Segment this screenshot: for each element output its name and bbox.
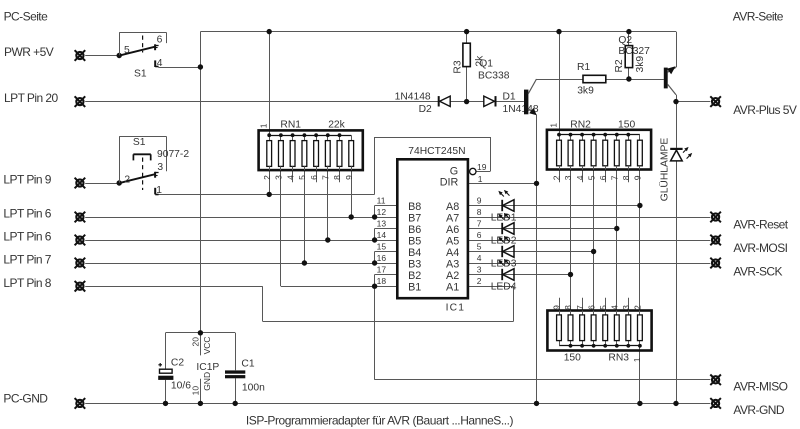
wire A2 row IC pin 3 through LED4 to RN2 pin 3 column [468,274,571,276]
svg-text:3k9: 3k9 [577,85,594,96]
svg-text:5: 5 [297,175,307,180]
svg-text:9: 9 [344,175,354,180]
svg-text:22k: 22k [328,119,345,130]
svg-text:150: 150 [564,353,581,364]
capacitor C2 10/6 electrolytic [158,363,173,380]
wire R3 top lead [466,32,468,44]
wire A7 row IC pin 8 to AVR-Reset [468,217,711,219]
svg-text:B4: B4 [408,247,421,259]
LED LED4 [498,259,514,280]
svg-text:20: 20 [190,337,200,347]
wire LPT Pin 9 to switch S1 pin 2 [85,183,119,185]
junction VCC node [198,330,203,335]
junction IC1P GND [198,401,203,406]
svg-text:C2: C2 [171,357,184,368]
wire RN1 unused pin stubs [292,170,294,182]
junction LED2 row RN2 pin 7 [614,226,619,231]
switch S1 upper (pins 5-6-4) [119,32,166,67]
wire D1 to Q1 base [496,101,524,103]
svg-text:C1: C1 [241,358,254,369]
svg-text:1: 1 [258,123,268,128]
terminal AVR-Reset [710,212,721,223]
resistor R1 3k9 [583,75,606,82]
terminal LPT Pin 8 [75,281,86,292]
junction PWR at S1 pin 5 [117,53,122,58]
wire LPT Pin 6 row to IC pin 12 [85,217,397,219]
svg-text:16: 16 [377,253,387,263]
svg-text:LPT Pin 6: LPT Pin 6 [3,207,51,221]
wire A3 row IC pin 4 to AVR-SCK [468,263,711,265]
junction RN1 pin 7 on pin-14 row [325,237,330,242]
wire Q2 emitter to +5V rail [676,32,678,68]
svg-text:5: 5 [586,175,596,180]
wire switch S1 pin 4 to +5V node [158,67,200,69]
svg-text:RN3: RN3 [608,353,629,364]
wire LPT Pin 8 jog down and under IC to A1 [262,286,264,321]
svg-text:74HCT245N: 74HCT245N [408,146,465,157]
wire IC1P VCC pin stub [200,333,202,356]
svg-text:4: 4 [157,58,163,69]
svg-text:A6: A6 [446,224,459,236]
svg-text:A4: A4 [446,247,459,259]
diode D2 1N4148 [439,96,451,106]
svg-text:9: 9 [633,175,643,180]
svg-text:IC1P: IC1P [196,362,219,373]
junction pins 17-18 MISO [372,284,377,289]
svg-text:1: 1 [478,174,483,184]
wire GND row [85,403,710,405]
wire RN2 unused pin stubs [559,169,561,182]
junction RN1 pin 2 on gate net [267,192,272,197]
svg-text:LED3: LED3 [491,258,517,269]
wire LPT Pin 7 row to IC pin 16 [85,263,397,265]
svg-text:BC338: BC338 [478,70,510,81]
terminal AVR-Plus 5V [710,96,721,107]
svg-text:4: 4 [610,305,620,310]
wire RN1 pin 2 down to gate net [269,170,271,194]
svg-text:B6: B6 [408,224,421,236]
diode D1 1N4148 [484,96,496,106]
svg-text:1: 1 [632,357,642,362]
terminal PWR +5V [75,50,86,61]
svg-text:13: 13 [377,219,387,229]
resistor network RN3 150 [547,311,651,351]
terminal LPT Pin 9 [75,178,86,189]
svg-text:5: 5 [477,242,482,252]
wire C1 bottom lead [235,378,237,403]
svg-text:AVR-SCK: AVR-SCK [733,264,782,278]
svg-text:LPT Pin 7: LPT Pin 7 [3,253,51,267]
wire IC pin 17 stub [375,274,398,276]
svg-text:Q2: Q2 [618,35,632,46]
wire C2 bottom lead [165,380,167,404]
svg-text:3: 3 [477,265,482,275]
junction LED4 row RN2 pin 3 [568,272,573,277]
resistor R2 3k9 [625,46,632,68]
junction R1-R2-Q2 base [626,76,631,81]
svg-text:6: 6 [598,175,608,180]
svg-text:AVR-Reset: AVR-Reset [733,218,788,232]
transistor Q2 BC327 PNP [664,66,676,94]
switch S1 lower (pins 2-3-1) 9077-2 [119,136,166,194]
junction D2-D1-R3 node [464,99,469,104]
svg-text:A1: A1 [446,282,459,294]
svg-text:6: 6 [309,175,319,180]
svg-text:LPT Pin 20: LPT Pin 20 [4,91,59,105]
svg-text:B1: B1 [408,282,421,294]
wire RN1 pin 9 down to pin-12 row [351,170,353,217]
svg-text:7: 7 [321,175,331,180]
svg-text:3: 3 [274,175,284,180]
wire RN1 pin 5 down to pin-16 row [304,170,306,263]
svg-text:VCC: VCC [202,336,212,354]
svg-text:AVR-Seite: AVR-Seite [733,10,784,24]
svg-text:17: 17 [377,265,387,275]
wire pair join pins 13-14 [374,229,376,241]
lamp GLUEHLAMPE LED symbol [670,147,692,161]
svg-text:A2: A2 [446,270,459,282]
svg-text:AVR-MISO: AVR-MISO [733,380,787,394]
wire pair join pins 17-18 and down to MISO row [374,275,376,380]
wire RN2 pin 5 column down to RN3 [593,166,595,311]
capacitor C1 100n [225,370,245,378]
svg-text:GND: GND [202,372,212,391]
junction LPT Pin 9 at S1 pin 2 [117,180,122,185]
svg-text:AVR-GND: AVR-GND [733,403,784,417]
wire Q2 collector to AVR-Plus 5V node [676,95,678,102]
junction S1 pin 4 to +5V rail [198,64,203,69]
wire C1 top lead [235,333,237,371]
LED LED2 [498,213,514,234]
wire RN1 pin 3 to IC pin 18 [280,170,282,286]
junction RN1 pin 5 on pin-16 row [302,260,307,265]
wire left vertical +5V/VCC rail [200,32,202,333]
LED LED3 [498,236,514,257]
svg-text:LED2: LED2 [491,235,517,246]
svg-text:PWR +5V: PWR +5V [4,45,54,59]
svg-text:LPT Pin 6: LPT Pin 6 [3,230,51,244]
junction C1 GND [233,401,238,406]
svg-text:LPT Pin 8: LPT Pin 8 [3,276,51,290]
junction pins 15-16 [372,260,377,265]
svg-text:19: 19 [477,162,487,172]
wire LPT Pin 20 row to D2 [85,101,438,103]
wire A4 row IC pin 5 through LED3 to RN2 pin 5 column [468,251,594,253]
svg-text:150: 150 [618,119,635,130]
svg-text:D2: D2 [419,104,432,115]
svg-text:AVR-Plus 5V: AVR-Plus 5V [733,103,797,117]
svg-text:2: 2 [633,305,643,310]
svg-text:A5: A5 [446,235,459,247]
wire DIR pin 1 to emitter rail [468,183,537,185]
transistor Q1 BC338 NPN [524,79,537,115]
svg-text:2: 2 [477,276,482,286]
wire pair join pins 15-16 [374,252,376,264]
svg-text:4: 4 [285,175,295,180]
svg-text:6: 6 [157,34,163,45]
svg-text:2: 2 [124,174,130,185]
terminal AVR-MOSI [710,235,721,246]
wire lamp column top [676,102,678,148]
wire RN2 pin 9 column down to RN3 [639,166,641,311]
junction RN1 pin 9 on pin-12 row [349,214,354,219]
wire A5 row IC pin 6 to AVR-MOSI [468,240,711,242]
svg-text:DIR: DIR [440,177,459,189]
svg-text:A8: A8 [446,201,459,213]
junction RN3 pin 1 GND [637,401,642,406]
junction C2 GND [163,401,168,406]
wire IC pin 13 stub [375,228,398,230]
svg-text:1N4148: 1N4148 [395,91,431,102]
svg-text:BC327: BC327 [618,46,650,57]
terminal LPT Pin 7 [75,258,86,269]
wire pair join pins 11-12 [374,206,376,218]
svg-text:D1: D1 [503,91,516,102]
svg-text:6: 6 [586,305,596,310]
svg-text:4: 4 [477,253,482,263]
wire Q1 emitter rail down to GND [536,115,538,404]
wire A6 row IC pin 7 through LED2 to RN2 pin 7 column [468,228,617,230]
svg-text:1: 1 [548,123,558,128]
svg-text:3: 3 [563,175,573,180]
resistor R3 2k [463,43,470,66]
svg-text:B2: B2 [408,270,421,282]
svg-text:10: 10 [190,386,200,396]
terminal LPT Pin 6 (lower) [75,235,86,246]
wire R1 left lead from Q1 collector [537,79,584,81]
svg-text:A3: A3 [446,258,459,270]
wire AVR-MISO row [375,379,711,381]
junction LED3 row RN2 pin 5 [591,249,596,254]
terminal LPT Pin 20 [75,96,86,107]
svg-text:2: 2 [552,175,562,180]
junction rail R3 [464,29,469,34]
svg-text:2: 2 [262,175,272,180]
wire switch pin 1 / RN1 pin 2 net to G gate [158,194,374,196]
LED LED1 [498,190,514,211]
svg-text:B7: B7 [408,212,421,224]
svg-text:3: 3 [157,162,163,173]
terminal AVR-MISO [710,375,721,386]
svg-text:RN2: RN2 [570,119,591,130]
svg-text:GLÜHLAMPE: GLÜHLAMPE [658,138,670,202]
svg-text:RN1: RN1 [280,119,301,130]
svg-text:LED4: LED4 [491,281,517,292]
svg-text:8: 8 [332,175,342,180]
svg-text:Q1: Q1 [479,59,493,70]
svg-text:9077-2: 9077-2 [157,149,189,160]
terminal PC-GND [75,398,86,409]
wire RN2 pin 1 to +5V rail [559,32,561,135]
svg-text:PC-GND: PC-GND [3,392,48,406]
svg-text:14: 14 [377,230,387,240]
wire RN1 pin 1 to +5V rail [269,32,271,136]
wire IC pin 15 stub [375,251,398,253]
svg-text:8: 8 [477,207,482,217]
wire D2 to D1 via R3 node [450,101,484,103]
svg-text:R2: R2 [614,59,625,72]
svg-text:ISP-Programmieradapter für AVR: ISP-Programmieradapter für AVR (Bauart .… [246,413,514,427]
svg-text:R1: R1 [577,62,590,73]
svg-text:4: 4 [575,175,585,180]
svg-text:10/6: 10/6 [171,381,191,392]
svg-text:LED1: LED1 [491,212,517,223]
wire +5V top rail [200,31,676,33]
terminal AVR-SCK [710,258,721,269]
wire R2 top lead [628,32,630,46]
wire RN2 pin 3 column down to RN3 [570,166,572,311]
wire net up to G pin path [374,137,376,194]
svg-text:8: 8 [621,175,631,180]
svg-text:8: 8 [563,305,573,310]
svg-text:6: 6 [477,230,482,240]
svg-text:S1: S1 [133,137,146,148]
terminal AVR-GND [710,398,721,409]
svg-text:LPT Pin 9: LPT Pin 9 [3,173,51,187]
svg-text:B5: B5 [408,235,421,247]
junction LED1 row RN2 pin 9 [637,203,642,208]
junction DIR on emitter rail [534,181,539,186]
svg-text:B8: B8 [408,201,421,213]
svg-text:18: 18 [377,276,387,286]
svg-text:12: 12 [377,207,387,217]
svg-text:AVR-MOSI: AVR-MOSI [733,241,787,255]
wire PWR +5V to switch S1 pin 5 [85,55,119,57]
junction Q2 collector AVR-Plus 5V [673,99,678,104]
resistor network RN1 22k [259,130,363,170]
wire R1 right lead to R2 node and Q2 base [606,79,664,81]
terminal LPT Pin 6 (upper) [75,212,86,223]
svg-text:9: 9 [477,196,482,206]
svg-text:7: 7 [575,305,585,310]
svg-text:5: 5 [124,45,130,56]
wire LPT Pin 6 row to IC pin 14 [85,240,397,242]
junction lamp column GND [673,401,678,406]
wire LPT Pin 8 row to corner [85,286,262,288]
svg-text:1: 1 [156,185,162,196]
svg-text:15: 15 [377,242,387,252]
wire VCC row C2-IC1P-C1 [166,332,236,334]
svg-text:11: 11 [377,196,386,206]
svg-text:3: 3 [621,305,631,310]
svg-text:A7: A7 [446,212,459,224]
junction rail RN1 pin 1 [267,29,272,34]
svg-text:100n: 100n [242,382,265,393]
wire RN2 pin 7 column down to RN3 [616,166,618,311]
junction rail R2 [626,29,631,34]
junction rail RN2 pin 1 [556,29,561,34]
resistor network RN2 150 [547,130,651,170]
wire IC1P GND pin stub [200,379,202,404]
wire IC pin 11 stub [375,205,398,207]
junction emitter rail GND [534,401,539,406]
wire lamp column down to GND row [676,161,678,403]
junction pins 13-14 [372,237,377,242]
wire R3 bottom lead [466,67,468,102]
svg-text:PC-Seite: PC-Seite [4,10,48,24]
wire RN1 pin 7 down to pin-14 row [327,170,329,240]
wire A8 row IC pin 9 through LED1 to RN2 pin 9 column [468,205,640,207]
wire RN3 unused pin stubs [559,298,561,315]
svg-text:5: 5 [598,305,608,310]
svg-text:B3: B3 [408,258,421,270]
svg-text:7: 7 [610,175,620,180]
svg-text:S1: S1 [134,68,147,79]
svg-text:R3: R3 [452,60,463,73]
svg-text:3k9: 3k9 [635,56,646,73]
wire RN3 pin 1 down to GND row [639,346,641,404]
svg-text:IC1: IC1 [446,303,466,314]
wire AVR-Plus 5V row [676,101,710,103]
svg-text:9: 9 [552,305,562,310]
svg-text:7: 7 [477,219,482,229]
junction pins 11-12 [372,214,377,219]
IC U1 74HCT245N buffer [397,159,476,298]
wire C2 top lead [165,333,167,369]
wire R2 bottom lead [628,68,630,79]
